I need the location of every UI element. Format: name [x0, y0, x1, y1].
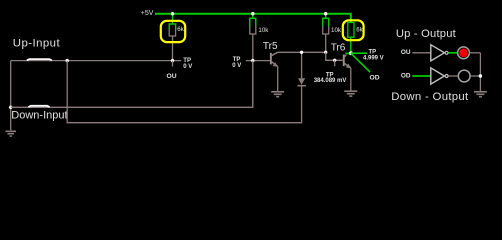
svg-text:Tr6: Tr6	[331, 43, 346, 54]
svg-text:0 V: 0 V	[183, 64, 192, 70]
junction on rail at R2	[251, 12, 254, 15]
green leader wire to TP4	[351, 52, 367, 54]
push switch SW1 (Up-Input, closed)	[27, 59, 52, 60]
svg-text:Up-Input: Up-Input	[13, 38, 61, 50]
wire from x67 junction down and across to diode cathode	[67, 61, 301, 123]
junction node at R1 bottom / test point TP1 pin	[171, 59, 174, 62]
svg-text:Down-Input: Down-Input	[11, 110, 67, 122]
wire OU to buffer U1	[412, 52, 431, 54]
push switch SW2 (Down-Input, closed)	[28, 106, 49, 107]
svg-text:Down - Output: Down - Output	[391, 91, 469, 103]
+5V rail wire	[155, 14, 351, 23]
diode D1 (cathode down)	[297, 52, 306, 85]
svg-text:OU: OU	[167, 73, 177, 80]
resistor R2 (10k pull-up, left)	[250, 14, 256, 34]
svg-text:384.089 mV: 384.089 mV	[314, 78, 347, 84]
left ground rail wire	[10, 61, 12, 131]
LED indicator LED1 (lit, red)	[458, 47, 470, 59]
junction node Down wire on left rail	[9, 106, 12, 109]
junction on rail at R1	[171, 12, 174, 15]
svg-text:Tr5: Tr5	[263, 41, 278, 52]
wire from TP2 to Tr5 base	[246, 60, 270, 62]
svg-text:10k: 10k	[258, 27, 269, 34]
wire Tr5 collector row	[278, 51, 326, 53]
resistor R3 (10k pull-up, right)	[323, 14, 329, 53]
wire LED2 to right rail	[470, 75, 480, 77]
svg-text:+5V: +5V	[141, 10, 154, 17]
svg-text:TP: TP	[183, 58, 191, 64]
ground GND1 (bottom left)	[5, 131, 16, 136]
wire from node B to Tr6 base	[326, 52, 343, 60]
green wire OD to buffer U2	[412, 75, 431, 77]
junction node at R2 lead on Tr5 base wire	[251, 59, 254, 62]
resistor R4 (6k collector load of Tr6, highlighted)	[348, 23, 354, 54]
svg-text:0 V: 0 V	[232, 63, 241, 69]
junction node at x67 on Up wire	[66, 59, 69, 62]
junction node B (R3 bottom)	[324, 51, 327, 54]
wire U2 output to LED2	[448, 75, 458, 77]
wire Down-Input row	[11, 61, 253, 108]
green leader wire to OD net label	[351, 53, 370, 72]
highlight box around R1	[161, 21, 185, 42]
highlight box around R4	[343, 20, 364, 40]
svg-text:6k: 6k	[177, 26, 184, 33]
transistor Tr6 (NPN)	[343, 53, 351, 90]
svg-text:10k: 10k	[331, 27, 342, 34]
svg-text:4.999 V: 4.999 V	[363, 55, 384, 61]
junction on rail at R3	[324, 12, 327, 15]
ground GND2 (Tr5 emitter)	[271, 92, 284, 97]
junction node A (diode top)	[300, 51, 303, 54]
wire Up-Input row (node OU)	[11, 60, 182, 62]
inverter buffer U1	[431, 45, 448, 61]
svg-text:OU: OU	[401, 49, 411, 56]
test point TP3 pin on Tr6 base wire	[333, 59, 336, 62]
ground GND3 (Tr6 emitter)	[344, 91, 357, 96]
resistor R1 (6k pull-up on node OU, highlighted)	[169, 14, 175, 61]
green wire U1 output to LED1	[448, 52, 457, 54]
svg-text:OD: OD	[401, 72, 411, 79]
LED indicator LED2 (off)	[458, 70, 470, 82]
junction node on right rail	[479, 74, 482, 77]
svg-text:Up - Output: Up - Output	[396, 28, 457, 40]
ground GND4 (right rail)	[474, 92, 487, 97]
right return rail wire	[479, 53, 481, 92]
transistor Tr5 (NPN)	[270, 52, 278, 91]
svg-text:OD: OD	[370, 74, 380, 81]
wire LED1 to right rail	[469, 52, 480, 54]
wire R2 bottom lead down to Down-Input wire	[252, 34, 254, 107]
node OD (Tr6 collector, green) with junction dot	[349, 51, 353, 55]
inverter buffer U2	[431, 68, 448, 84]
